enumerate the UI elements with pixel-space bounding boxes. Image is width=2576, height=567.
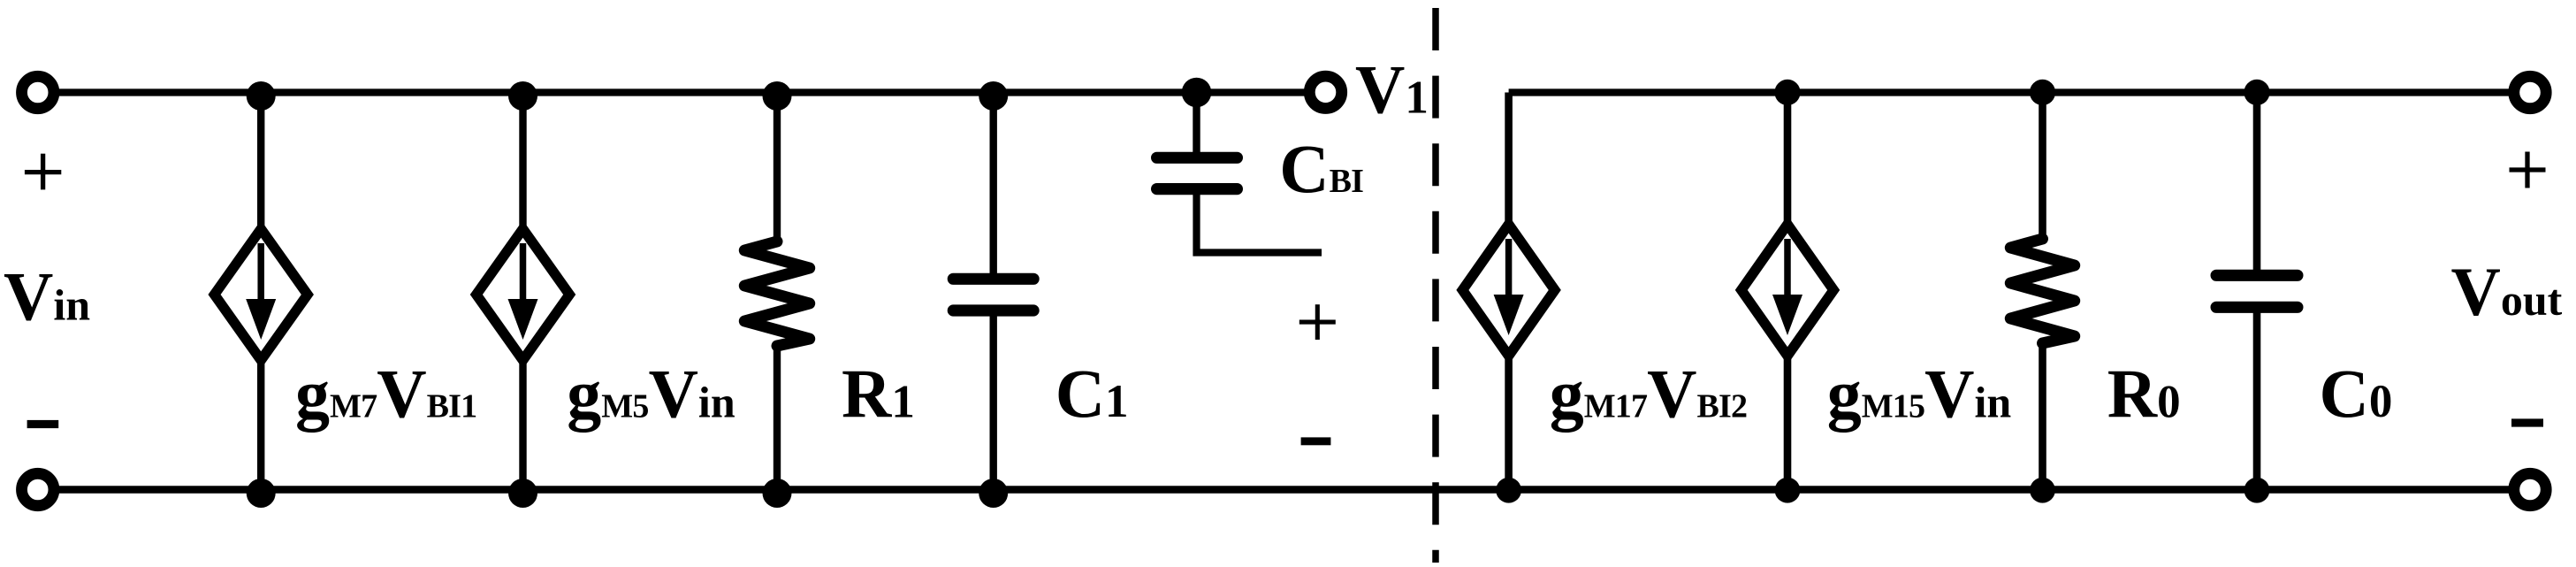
node dot top g1 bbox=[247, 81, 276, 111]
minus sign output bbox=[2511, 418, 2543, 426]
terminal Vin minus bbox=[22, 473, 54, 505]
node dot top C1 bbox=[979, 81, 1008, 111]
minus sign input bbox=[27, 420, 59, 428]
resistor RO bbox=[2010, 93, 2074, 490]
current source G4 gM15Vin bbox=[1741, 93, 1833, 490]
wire top-right rail bbox=[1509, 88, 2530, 96]
terminal Vout plus bbox=[2514, 76, 2546, 108]
node dot top g4 bbox=[1774, 80, 1800, 105]
wire bottom rail bbox=[38, 486, 2530, 494]
node dot top CO bbox=[2244, 80, 2269, 105]
node dot bottom g2 bbox=[508, 479, 537, 508]
minus sign mid bbox=[1301, 437, 1331, 445]
boundary dashed line bbox=[1432, 8, 1439, 566]
capacitor C1 bbox=[953, 93, 1033, 490]
plus sign input bbox=[25, 154, 61, 190]
terminal Vin plus bbox=[22, 76, 54, 108]
terminal node V1 bbox=[1309, 76, 1341, 108]
node dot bottom g1 bbox=[247, 479, 276, 508]
plus sign mid bbox=[1299, 304, 1336, 340]
capacitor CBI bbox=[1157, 93, 1322, 253]
current source G1 gM7VBI1 bbox=[215, 93, 308, 490]
node dot top g2 bbox=[508, 81, 537, 111]
node dot bottom g4 bbox=[1775, 478, 1801, 503]
resistor R1 bbox=[744, 93, 809, 490]
node dot bottom R1 bbox=[763, 479, 792, 508]
capacitor CO bbox=[2216, 93, 2298, 490]
node dot bottom C1 bbox=[979, 479, 1008, 508]
node dot bottom g3 bbox=[1496, 478, 1521, 503]
current source G2 gM5Vin bbox=[476, 93, 569, 490]
node dot bottom CO bbox=[2244, 478, 2270, 503]
wire top-left rail bbox=[38, 88, 1325, 96]
node dot bottom RO bbox=[2030, 478, 2055, 503]
node dot top R1 bbox=[763, 81, 792, 111]
terminal Vout minus bbox=[2514, 473, 2546, 505]
node dot top RO bbox=[2030, 80, 2055, 105]
plus sign output bbox=[2510, 152, 2546, 188]
current source G3 gM17VBI2 bbox=[1462, 93, 1554, 490]
node dot top CBI bbox=[1182, 78, 1212, 108]
